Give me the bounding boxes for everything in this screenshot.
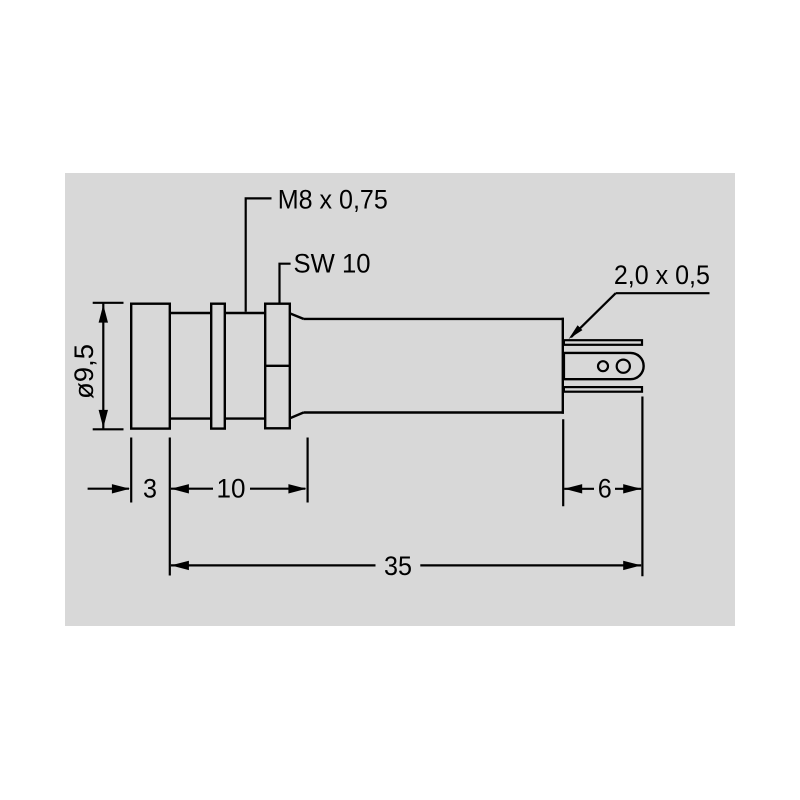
dim 10 line left part xyxy=(171,488,213,490)
dim 10 line right part xyxy=(250,488,305,490)
arrow dim35 right xyxy=(623,561,641,570)
extension line taper end xyxy=(307,438,309,503)
neck bottom edge wire xyxy=(169,417,266,419)
svg-text:2,0 x 0,5: 2,0 x 0,5 xyxy=(614,260,710,290)
svg-text:6: 6 xyxy=(598,474,612,504)
svg-text:M8 x 0,75: M8 x 0,75 xyxy=(278,185,388,215)
arrow dim35 left xyxy=(171,561,189,570)
collar ring xyxy=(211,304,225,429)
arrow dim6 left xyxy=(564,484,582,493)
arrow dim6 right xyxy=(623,484,641,493)
body top edge xyxy=(304,318,565,320)
taper top edge xyxy=(289,313,304,319)
tab hole large xyxy=(617,360,630,373)
dim d9.5 extension tick top xyxy=(93,302,124,304)
extension line head left xyxy=(130,438,132,503)
drawing panel background xyxy=(65,173,735,626)
arrow dim3 right xyxy=(112,484,130,493)
dim 3 outside line xyxy=(88,488,129,490)
svg-text:SW 10: SW 10 xyxy=(294,248,371,278)
body right edge xyxy=(562,318,564,414)
taper bottom edge xyxy=(289,413,304,419)
leader 2,0x0,5 underline xyxy=(616,292,710,294)
extension line terminal end xyxy=(641,397,643,577)
svg-text:35: 35 xyxy=(384,551,412,581)
svg-text:ø9,5: ø9,5 xyxy=(69,344,99,399)
terminal strip top xyxy=(564,340,642,345)
svg-text:10: 10 xyxy=(217,474,246,504)
arrow d9.5 down xyxy=(99,410,108,428)
lens head xyxy=(131,304,170,429)
dim 35 line right part xyxy=(420,564,641,566)
terminal strip bottom xyxy=(564,387,642,392)
svg-text:3: 3 xyxy=(143,473,157,503)
neck top edge wire xyxy=(169,312,266,314)
arrow leader 2,0x0,5 xyxy=(569,325,583,339)
dim 6 line right part xyxy=(615,488,641,490)
extension line head right (to 35 dim) xyxy=(169,438,171,576)
arrow dim10 left xyxy=(171,484,189,493)
hex nut SW10 xyxy=(265,304,290,429)
leader M8 xyxy=(246,198,272,311)
extension line body right xyxy=(562,419,564,506)
arrow dim10 right xyxy=(288,484,306,493)
leader 2,0x0,5 slant xyxy=(571,293,616,337)
dim 6 line left part xyxy=(564,488,594,490)
leader SW10 xyxy=(280,264,291,303)
body bottom edge xyxy=(304,411,565,413)
tab hole small xyxy=(598,361,608,371)
terminal tab xyxy=(564,353,644,379)
arrow d9.5 up xyxy=(99,305,108,323)
dim d9.5 line xyxy=(102,304,104,429)
dim d9.5 extension tick bottom xyxy=(93,428,124,430)
dim 35 line left part xyxy=(171,564,376,566)
nut centerline xyxy=(265,365,290,367)
